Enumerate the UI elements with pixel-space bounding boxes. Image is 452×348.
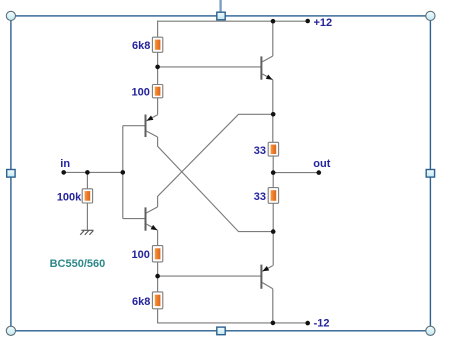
wire -12 rail [158,322,308,324]
wire Q1 collector to lower cross node [158,137,274,232]
junction R5/R6 [155,274,160,279]
wire Q1 base [123,125,146,127]
wire Q4 collector to -12 rail [272,289,274,323]
resistor R4a 33 [268,142,278,156]
svg-text:6k8: 6k8 [132,296,150,308]
junction lower cross node [271,229,276,234]
wire Q2 base [123,218,146,220]
svg-text:33: 33 [254,145,266,157]
svg-text:33: 33 [254,191,266,203]
node in terminal [61,170,66,175]
junction +12 rail / Q3 collector [271,19,276,24]
resistor R2 100 [152,85,162,98]
wire R4b to Q4 emitter [272,203,274,265]
wire R2 to Q1 emitter [157,98,159,115]
svg-text:6k8: 6k8 [132,40,150,52]
svg-text:+12: +12 [314,17,333,29]
resistor R6 6k8 [152,292,162,309]
node -12 terminal [305,321,310,326]
junction upper cross node [271,112,276,117]
wire junction to Q4 base [158,275,262,277]
wire input to R3 [86,172,88,188]
wire base bus [122,126,124,219]
wire input [64,171,123,173]
junction output node [271,170,276,175]
svg-text:-12: -12 [314,317,330,329]
wire Q3 collector to +12 rail [272,21,274,56]
junction input / R3 [85,170,90,175]
wire Q2 emitter to R5 [157,230,159,245]
svg-text:BC550/560: BC550/560 [50,258,106,270]
wire R1 to R2 [157,52,159,84]
node out terminal [317,170,322,175]
svg-text:100: 100 [132,249,150,261]
resistor R5 100 [152,246,162,262]
svg-text:out: out [313,158,330,170]
node +12 terminal [305,19,310,24]
svg-text:100: 100 [132,87,150,99]
transistor Q3 BC550 NPN upper-right [261,56,272,80]
resistor R4b 33 [268,188,278,204]
junction node R1/R2 [155,65,160,70]
wire Q2 collector to upper cross node [158,114,274,207]
junction input / base bus [121,170,126,175]
wire left column top to R1 [157,21,159,38]
wire R3 to ground [86,203,88,230]
transistor Q2 BC550 NPN lower-left [146,207,158,231]
resistor R3 100k [82,189,92,203]
ground [80,230,93,235]
transistor Q4 BC560 PNP lower-right [261,265,272,289]
wire Q3 emitter to R4a [272,80,274,143]
resistor R1 6k8 [152,37,162,52]
svg-text:100k: 100k [57,191,82,203]
wire R5 to R6 [157,262,159,292]
wire R4a to R4b [272,156,274,188]
svg-text:in: in [60,158,70,170]
transistor Q1 BC560 PNP upper-left [146,115,158,138]
wire +12 rail [158,20,308,22]
wire output [273,172,319,174]
junction -12 rail / Q4 collector [271,321,276,326]
wire junction to Q3 base [158,66,262,68]
wire R6 to -12 rail [157,309,159,324]
